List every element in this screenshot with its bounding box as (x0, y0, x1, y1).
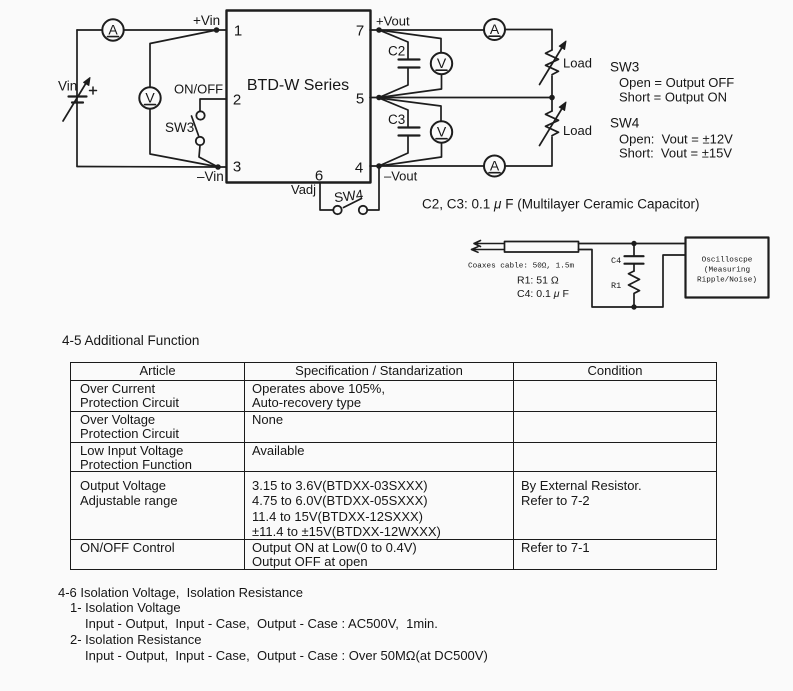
svg-text:A: A (108, 22, 118, 38)
DC-DC module U1 BTD-W Series (227, 11, 371, 183)
wire bottom ammeter to -Vout node (370, 165, 484, 167)
wire load2 to bottom ammeter (505, 137, 552, 166)
svg-text:A: A (490, 158, 500, 174)
svg-text:C3: C3 (388, 112, 405, 127)
voltmeter V output lower (379, 98, 452, 166)
switch SW3 (192, 111, 205, 145)
svg-text:–Vout: –Vout (384, 169, 418, 184)
pin 2 (233, 92, 241, 109)
note R1 value (517, 275, 559, 287)
svg-text:R1: 51 Ω: R1: 51 Ω (517, 275, 559, 287)
load 2 variable resistor (540, 102, 567, 146)
svg-text:6: 6 (315, 168, 323, 185)
svg-text:1: 1 (234, 23, 242, 40)
wire input top left horizontal (77, 29, 226, 31)
label R1 (611, 281, 621, 291)
label Vin (58, 79, 77, 94)
label -Vout (384, 169, 418, 184)
svg-text:V: V (437, 124, 447, 140)
label C4 (611, 256, 621, 266)
svg-text:+Vin: +Vin (193, 13, 220, 28)
note C2 C3 value (422, 197, 700, 212)
svg-text:Load: Load (563, 56, 592, 71)
label C2 (388, 44, 405, 59)
capacitor C4 (625, 244, 644, 272)
svg-text:(Measuring: (Measuring (704, 267, 750, 275)
wire +Vin node to input voltmeter (150, 31, 214, 88)
svg-text:V: V (437, 55, 447, 71)
ammeter A output lower (484, 156, 505, 177)
svg-text:Ripple/Noise): Ripple/Noise) (697, 277, 757, 285)
coax cable leads (472, 241, 505, 253)
wire pin5 common rail (370, 97, 552, 99)
svg-text:7: 7 (356, 23, 364, 40)
svg-text:Short: Vout = ±15V: Short: Vout = ±15V (619, 146, 732, 161)
note C4 value (517, 288, 569, 300)
wire input left vertical (76, 30, 78, 166)
label Load 1 (563, 56, 592, 71)
node pin5 (376, 95, 382, 101)
capacitor C2 (379, 30, 420, 98)
ammeter A output upper (484, 19, 505, 40)
wire load1 to load2 (551, 76, 553, 111)
svg-text:3: 3 (233, 159, 241, 176)
wire SW3 to -Vin node (199, 146, 218, 168)
svg-text:SW4: SW4 (333, 187, 364, 206)
svg-text:5: 5 (356, 91, 364, 108)
svg-text:ON/OFF: ON/OFF (174, 82, 223, 97)
svg-text:Coaxes cable: 50Ω, 1.5m: Coaxes cable: 50Ω, 1.5m (468, 263, 574, 271)
svg-text:C2: C2 (388, 44, 405, 59)
node load common (549, 95, 555, 101)
node +Vout (376, 27, 382, 33)
svg-text:SW4: SW4 (610, 116, 640, 131)
svg-text:Open: Vout = ±12V: Open: Vout = ±12V (619, 132, 733, 147)
svg-text:–Vin: –Vin (197, 169, 224, 184)
svg-text:Open = Output OFF: Open = Output OFF (619, 75, 734, 90)
capacitor C3 (379, 98, 420, 166)
svg-text:4: 4 (355, 160, 363, 177)
svg-text:SW3: SW3 (165, 120, 194, 135)
svg-text:Load: Load (563, 123, 592, 138)
voltmeter V output upper (379, 30, 452, 98)
note SW3 function (610, 60, 734, 105)
note coax cable spec (468, 263, 574, 271)
ammeter A input (102, 19, 123, 40)
wire pin6 Vadj to SW4 (320, 183, 333, 210)
label C3 (388, 112, 405, 127)
svg-text:Short = Output ON: Short = Output ON (619, 90, 727, 105)
svg-text:R1: R1 (611, 281, 621, 291)
wire coax center conductor to oscilloscope (579, 243, 686, 245)
pin 3 (233, 159, 241, 176)
voltage source Vin (63, 78, 97, 122)
coax cable body (505, 242, 579, 253)
svg-text:2: 2 (233, 92, 241, 109)
node C4 top (631, 241, 636, 246)
wire coax shield to oscilloscope (579, 250, 686, 308)
svg-text:Vadj: Vadj (291, 182, 316, 197)
pin 4 (355, 160, 363, 177)
svg-text:C2, C3: 0.1 μ F (Multilayer Ce: C2, C3: 0.1 μ F (Multilayer Ceramic Capa… (422, 197, 700, 212)
svg-text:SW3: SW3 (610, 60, 639, 75)
pin 6 (315, 168, 323, 185)
wire pin2 ON/OFF (200, 99, 226, 111)
load 1 variable resistor (540, 41, 567, 85)
pin 5 (356, 91, 364, 108)
svg-text:Vin: Vin (58, 79, 77, 94)
node -Vout (376, 163, 382, 169)
svg-text:Oscilloscpe: Oscilloscpe (702, 257, 753, 265)
node -Vin (215, 164, 221, 170)
label +Vout (376, 14, 410, 29)
wire SW4 to -Vout node (368, 167, 380, 210)
svg-text:BTD-W Series: BTD-W Series (247, 77, 349, 94)
label Load 2 (563, 123, 592, 138)
label -Vin (197, 169, 224, 184)
pin 7 (356, 23, 364, 40)
label Vadj (291, 182, 316, 197)
wire input voltmeter to -Vin node (150, 109, 216, 167)
svg-text:V: V (145, 90, 155, 106)
label ON/OFF (174, 82, 223, 97)
resistor R1 (629, 271, 640, 307)
switch SW4 (333, 199, 367, 215)
pin 1 (234, 23, 242, 40)
wire output ammeter to load 1 (505, 30, 552, 51)
voltmeter V input (139, 87, 160, 108)
label +Vin (193, 13, 220, 28)
label oscilloscope (697, 257, 757, 285)
label SW4 (333, 187, 364, 206)
label SW3 (165, 120, 194, 135)
svg-text:+Vout: +Vout (376, 14, 410, 29)
node C4 bottom (631, 304, 636, 309)
svg-text:C4: 0.1 μ F: C4: 0.1 μ F (517, 288, 569, 300)
node +Vin (214, 27, 220, 33)
wire input bottom (77, 166, 226, 169)
svg-text:C4: C4 (611, 256, 621, 266)
wire pin7 +Vout to output ammeter (370, 29, 484, 31)
svg-text:A: A (490, 21, 500, 37)
note SW4 function (610, 116, 733, 161)
oscilloscope box (686, 238, 769, 298)
